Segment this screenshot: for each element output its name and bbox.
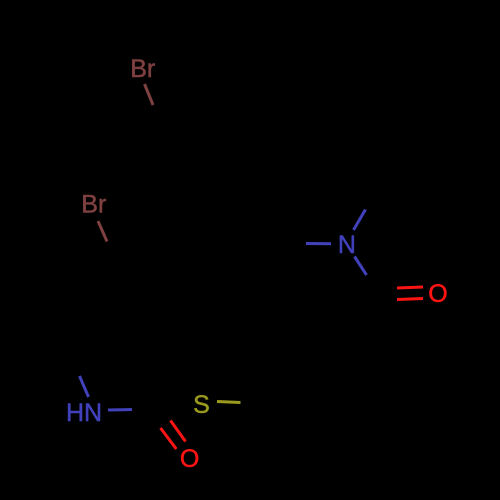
svg-text:Br: Br <box>130 55 155 83</box>
svg-text:N: N <box>338 231 356 259</box>
bond S-C (right) <box>217 402 241 403</box>
double bond C=O (right) line 2 <box>397 299 423 300</box>
svg-text:S: S <box>193 391 210 419</box>
svg-text:Br: Br <box>81 191 106 219</box>
double bond C=O (right) line 1 <box>397 287 423 288</box>
bond C-Br (top) <box>145 84 154 105</box>
bond N-C ring (left) <box>306 242 331 245</box>
double bond C=O (bottom) line 2 <box>161 428 177 449</box>
bond C-Br (middle-left) <box>98 221 107 242</box>
double bond C=O (bottom) line 1 <box>171 421 186 442</box>
bond HN-C (right) <box>108 408 132 412</box>
bond HN-C (up) <box>80 376 89 397</box>
bond N-C=O (down-right) <box>355 257 367 276</box>
bond N-CH3 (up-right) <box>354 210 366 231</box>
svg-text:HN: HN <box>66 399 102 427</box>
svg-text:O: O <box>180 445 199 473</box>
svg-text:O: O <box>428 280 447 308</box>
